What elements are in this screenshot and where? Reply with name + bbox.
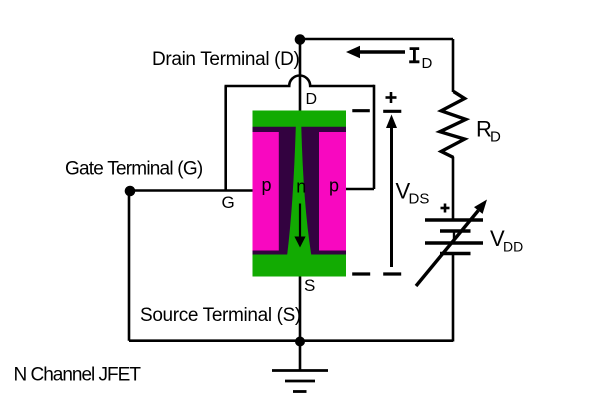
svg-text:G: G <box>222 193 235 212</box>
svg-text:DD: DD <box>503 239 523 255</box>
wire: top wire from drain node to right rail <box>300 38 453 41</box>
label ID <box>409 49 432 72</box>
svg-text:p: p <box>329 176 339 196</box>
svg-text:N Channel JFET: N Channel JFET <box>14 365 142 386</box>
wire: right rail between resistor and battery <box>452 157 455 220</box>
channel current arrow <box>294 204 305 248</box>
ground <box>272 371 328 392</box>
wire: right rail bottom (battery to bottom wire) <box>452 254 455 342</box>
svg-text:D: D <box>422 55 433 72</box>
wire: right rail top (to resistor) <box>452 39 455 92</box>
wire: gate loop right vertical <box>373 85 376 189</box>
wire: gate horizontal wire <box>129 189 253 192</box>
wire: gate loop left vertical <box>224 86 227 191</box>
p region left (magenta) <box>253 132 279 251</box>
svg-text:DS: DS <box>409 191 430 208</box>
wire: gate loop bottom stub to right p region <box>346 188 375 191</box>
resistor R1 (RD) zigzag <box>440 92 466 158</box>
VDS arrow (pointing up) <box>386 115 397 268</box>
VDS bottom dash right <box>383 272 401 275</box>
svg-text:Drain Terminal (D): Drain Terminal (D) <box>152 49 300 70</box>
depletion region left (dark) <box>253 127 296 255</box>
svg-text:D: D <box>306 91 318 108</box>
svg-text:D: D <box>490 129 501 146</box>
JFET body (n-type green bar) <box>253 111 347 277</box>
node: drain junction dot <box>295 34 306 45</box>
wire: source vertical wire to ground <box>299 276 302 371</box>
p region right (magenta) <box>319 132 346 251</box>
svg-text:S: S <box>304 276 315 295</box>
wire: left rail (gate to bottom wire) <box>128 191 131 341</box>
wire: bottom wire <box>129 339 453 342</box>
VDS top tick <box>383 110 401 113</box>
node: gate junction dot <box>125 186 136 197</box>
battery variable arrow <box>416 200 487 287</box>
current arrow ID <box>346 46 405 58</box>
wire: drain vertical wire <box>299 40 302 111</box>
depletion region right (dark) <box>301 127 346 255</box>
VDS bottom dash left <box>352 272 370 275</box>
label RD <box>476 117 501 146</box>
wire: gate loop top with hop over drain wire <box>225 76 375 87</box>
svg-text:Source Terminal (S): Source Terminal (S) <box>140 305 301 326</box>
battery V1 (VDD) plates <box>425 220 483 254</box>
VDS minus dash (top, at JFET) <box>352 109 370 112</box>
node: source/ground junction dot <box>295 337 305 347</box>
svg-text:Gate Terminal (G): Gate Terminal (G) <box>65 159 203 180</box>
svg-text:p: p <box>262 175 272 195</box>
battery plus sign <box>441 204 450 213</box>
label VDD <box>490 226 523 255</box>
VDS plus sign <box>386 92 397 103</box>
label VDS <box>396 179 430 208</box>
svg-text:n: n <box>296 176 306 196</box>
